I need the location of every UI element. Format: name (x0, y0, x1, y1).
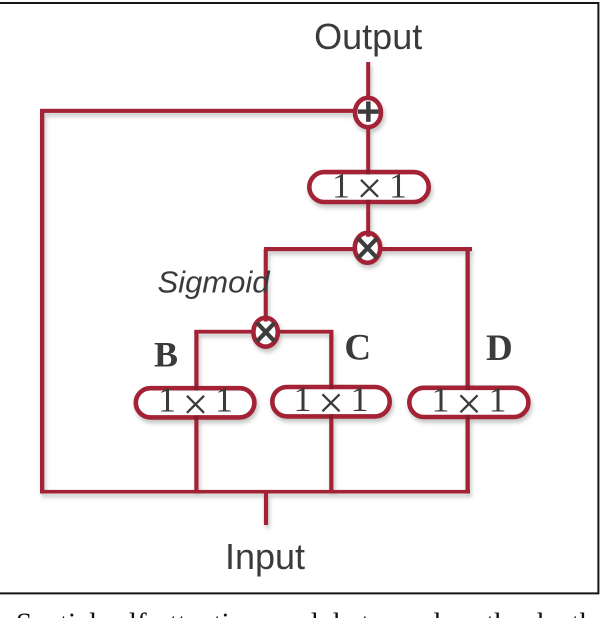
svg-text:1: 1 (489, 379, 507, 419)
svg-text:Sigmoid: Sigmoid (158, 265, 272, 300)
svg-text:1: 1 (332, 165, 350, 205)
svg-text:1: 1 (389, 165, 407, 205)
svg-text:1: 1 (294, 379, 312, 419)
svg-text:×: × (183, 378, 209, 429)
svg-text:Output: Output (314, 16, 422, 57)
svg-text:C: C (344, 327, 371, 368)
svg-text:Input: Input (225, 536, 305, 577)
svg-text:1: 1 (158, 380, 176, 420)
svg-text:×: × (456, 378, 482, 429)
svg-text:D: D (486, 328, 513, 369)
svg-text:×: × (357, 162, 383, 213)
svg-text:×: × (318, 377, 344, 428)
svg-text:1: 1 (351, 379, 369, 419)
svg-text:B: B (154, 334, 178, 374)
svg-text:Spatial self-attention module: Spatial self-attention module to explore… (16, 607, 595, 618)
svg-text:1: 1 (215, 380, 233, 420)
svg-text:1: 1 (432, 379, 450, 419)
